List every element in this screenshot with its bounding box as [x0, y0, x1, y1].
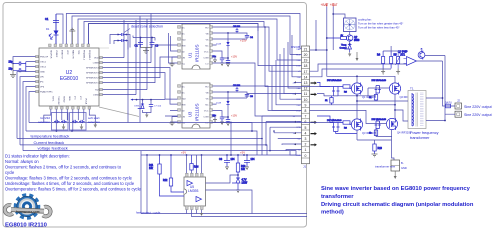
+15V branch wire	[310, 20, 327, 50]
lcd selection box	[52, 113, 69, 131]
wires U2 bottom pins to selection boxes	[44, 109, 96, 131]
svg-text:selection: selection	[38, 120, 50, 124]
ground divider 1	[381, 69, 385, 75]
wire top bus row2	[72, 16, 302, 54]
fan note text	[358, 18, 403, 30]
svg-text:NC: NC	[182, 28, 186, 30]
svg-text:NC: NC	[182, 34, 186, 36]
svg-text:DW 15V&4148: DW 15V&4148	[327, 80, 342, 82]
svg-text:temperature feedback: temperature feedback	[31, 134, 70, 139]
connector net labels	[293, 49, 302, 157]
wire transformer bottom to battery connector	[392, 140, 395, 160]
+5V labels	[181, 151, 245, 155]
svg-text:FANCTR: FANCTR	[72, 50, 75, 59]
ground near U2 pin VCC	[69, 28, 75, 44]
svg-text:LM393: LM393	[188, 189, 198, 193]
svg-text:4: 4	[305, 131, 307, 135]
connector J2 output A	[455, 99, 462, 109]
svg-text:+15V: +15V	[231, 114, 237, 118]
main title	[321, 186, 474, 216]
ground U1 bottom left	[170, 57, 178, 67]
svg-text:NC: NC	[205, 105, 209, 107]
U5 top pins	[186, 173, 204, 177]
svg-text:1: 1	[305, 148, 307, 152]
svg-text:8: 8	[305, 109, 307, 113]
ground crystal	[10, 63, 16, 78]
resistor R8 Q3 gate	[317, 116, 351, 130]
wire jumpers to pins	[110, 35, 130, 50]
svg-text:VCC: VCC	[66, 50, 68, 55]
svg-text:VCC: VCC	[204, 52, 209, 54]
ground C13	[226, 123, 230, 126]
IC U5 LM393	[184, 177, 206, 206]
capacitor C1	[45, 14, 59, 27]
diode D2 bootstrap	[216, 32, 229, 58]
lcd selection label	[38, 116, 50, 124]
svg-text:1/2W: 1/2W	[242, 182, 248, 185]
svg-text:104: 104	[231, 158, 236, 161]
svg-text:SPWMOUT4: SPWMOUT4	[86, 68, 99, 70]
wires U5 top pins	[187, 155, 202, 173]
svg-text:OSC1: OSC1	[40, 62, 47, 64]
U5 bottom pins	[186, 206, 204, 210]
wire U2 left pin1 loop	[13, 57, 36, 67]
svg-text:C1: C1	[45, 17, 49, 21]
gnd rail y131	[26, 131, 257, 155]
svg-text:RT1: RT1	[401, 54, 406, 57]
svg-text:SDN: SDN	[68, 96, 70, 101]
wire top bus row5	[89, 24, 259, 45]
ground C9	[245, 167, 249, 170]
current feedback rail	[20, 140, 267, 155]
comparator input wires	[310, 64, 407, 77]
svg-text:+BAT: +BAT	[321, 3, 329, 7]
ground C11	[226, 64, 230, 67]
wire U1 HO to Q1 gate	[213, 27, 331, 87]
MOSFET Q4	[386, 118, 397, 130]
capacitor C13	[226, 116, 230, 123]
wire D1 branch	[56, 14, 63, 44]
wire U1 LO to Q3 gate	[213, 63, 302, 116]
svg-text:R12: R12	[163, 179, 168, 182]
transformer label	[410, 131, 439, 140]
shutdown protection cluster	[130, 99, 165, 118]
svg-text:VVREF: VVREF	[55, 50, 57, 58]
svg-text:Driving circuit schematic diag: Driving circuit schematic diagram (unipo…	[321, 202, 474, 208]
svg-text:U1: U1	[188, 52, 193, 58]
resistor R6 Q1 gate	[317, 82, 351, 93]
MOSFET Q2	[389, 83, 400, 95]
svg-text:DW5.1: DW5.1	[134, 106, 141, 108]
ground caps cluster	[141, 48, 153, 54]
wire U3 LO down	[213, 123, 253, 131]
mesh verticals	[124, 14, 151, 123]
wire transformer secondary to J2	[417, 61, 456, 106]
fuse F1 body	[446, 104, 451, 108]
bridge midpoint A	[317, 94, 408, 119]
svg-text:Sine wave inverter based on EG: Sine wave inverter based on EG8010 power…	[321, 186, 471, 192]
svg-text:PQAD/TVRC: PQAD/TVRC	[40, 91, 53, 94]
svg-text:HO: HO	[205, 28, 209, 30]
wire top bus row1	[66, 14, 301, 49]
U2 pin labels right column	[86, 58, 99, 97]
svg-text:+15V: +15V	[231, 55, 237, 59]
ground soft start 1	[62, 124, 66, 130]
ground U5	[200, 211, 203, 216]
zener cluster Q4 gate	[372, 119, 387, 129]
connector J3 output B	[455, 111, 462, 117]
U3 right pins	[210, 85, 213, 124]
svg-text:GND: GND	[401, 166, 407, 170]
svg-text:cooling fan:: cooling fan:	[358, 18, 372, 22]
svg-text:Turn off the fan when less tha: Turn off the fan when less than 45°	[358, 25, 400, 29]
rail y122	[29, 119, 333, 123]
svg-text:Overvoltage: flashes 3 times,: Overvoltage: flashes 3 times, off for 2 …	[5, 175, 133, 180]
transformer T1	[408, 87, 426, 129]
resistor R12	[163, 155, 184, 192]
ground Q5	[348, 52, 351, 57]
svg-text:NC: NC	[182, 93, 186, 95]
svg-text:T1: T1	[410, 87, 414, 91]
ground divider 2	[396, 69, 400, 75]
svg-text:LOBB: LOBB	[93, 63, 99, 65]
svg-text:cycle: cycle	[5, 170, 15, 175]
transistor Q5	[347, 32, 360, 45]
U2 top pins	[49, 44, 110, 48]
resistor R4 divider	[377, 51, 385, 69]
description text block	[5, 153, 141, 191]
wire U3 VCC	[213, 111, 229, 117]
svg-text:9: 9	[305, 103, 307, 107]
connector arrows	[294, 81, 317, 146]
voltage feedback rail	[23, 146, 296, 155]
svg-text:transformer wire: transformer wire	[375, 164, 396, 168]
svg-text:B-: B-	[401, 161, 404, 165]
op-amp U4	[404, 57, 417, 66]
jumper JP1	[117, 33, 127, 36]
wire divider top	[383, 46, 398, 69]
connector row wires staircase lower	[262, 116, 302, 139]
IC U3 IR2110S	[182, 83, 210, 128]
svg-text:LIN: LIN	[182, 58, 186, 60]
ground J6	[394, 171, 397, 179]
connector row wires staircase upper	[89, 24, 302, 66]
source rail to ground	[357, 130, 392, 144]
svg-text:2: 2	[305, 143, 307, 147]
capacitor C12	[233, 85, 241, 92]
svg-text:fast protect - cycle: fast protect - cycle	[136, 211, 161, 215]
svg-text:SELFCK: SELFCK	[50, 50, 52, 59]
svg-text:+15V: +15V	[240, 39, 247, 43]
junction dots vcc node	[140, 37, 153, 39]
svg-text:voltage feedback: voltage feedback	[38, 146, 68, 151]
soft start jumpers	[72, 120, 85, 123]
U2 pin labels bottom row	[52, 96, 88, 105]
resistor R14	[190, 155, 199, 170]
svg-text:+5V: +5V	[181, 151, 186, 155]
U3 left pins	[178, 85, 181, 124]
svg-text:L/380: L/380	[93, 95, 99, 97]
bridge midpoint B	[310, 94, 409, 121]
svg-text:R10: R10	[378, 147, 383, 150]
capacitor C6 bootstrap	[245, 94, 254, 98]
wire U1 VCC	[213, 51, 229, 58]
wires U5 bottom pins	[187, 210, 308, 217]
svg-text:18: 18	[304, 64, 308, 68]
svg-text:0: 0	[305, 154, 307, 158]
svg-text:GND: GND	[40, 72, 45, 74]
svg-text:DW 15V&4148: DW 15V&4148	[372, 119, 387, 121]
capacitor C5	[212, 56, 224, 63]
MOSFET Q3	[351, 119, 362, 131]
svg-text:hunnypass.com: hunnypass.com	[16, 210, 40, 214]
svg-text:NC: NC	[182, 87, 186, 89]
svg-text:COM: COM	[203, 58, 208, 60]
svg-text:Normal: always on: Normal: always on	[5, 159, 39, 164]
soft start label	[88, 116, 100, 124]
svg-text:IR2110S: IR2110S	[195, 44, 200, 62]
wire U3 COM gnd	[213, 117, 218, 123]
U2 bottom pins	[50, 107, 91, 110]
svg-text:NC: NC	[205, 46, 209, 48]
svg-text:SPWMOUT1: SPWMOUT1	[86, 83, 99, 85]
svg-text:FRQSEL1: FRQSEL1	[83, 50, 85, 61]
svg-text:C? 104: C? 104	[233, 85, 241, 87]
svg-text:VDD: VDD	[94, 58, 99, 60]
svg-text:13: 13	[304, 81, 308, 85]
svg-text:Current feedback: Current feedback	[34, 140, 65, 145]
resistor R7 Q2 gate	[369, 93, 378, 101]
svg-text:IR2110S: IR2110S	[195, 103, 200, 121]
svg-text:+5V: +5V	[240, 151, 245, 155]
svg-text:104: 104	[251, 158, 256, 161]
svg-text:selection: selection	[88, 120, 100, 124]
capacitor C4 bootstrap	[245, 35, 254, 39]
svg-text:8050: 8050	[354, 39, 360, 42]
ground right of boxes	[94, 122, 98, 128]
svg-text:SD: SD	[182, 52, 185, 54]
svg-text:SPWMOUT3: SPWMOUT3	[86, 73, 99, 75]
svg-text:U3: U3	[188, 111, 193, 117]
svg-text:14: 14	[304, 75, 308, 79]
resistor R15 gate pulldown	[325, 96, 333, 105]
ground shunt	[372, 154, 378, 157]
transistor Q6 PNP	[398, 48, 425, 60]
shunt resistor R10	[373, 144, 383, 154]
svg-text:Sine 220V output: Sine 220V output	[464, 105, 492, 109]
resistor R5 divider	[390, 51, 398, 69]
svg-text:5: 5	[305, 126, 307, 130]
svg-text:VCC: VCC	[204, 111, 209, 113]
wire U3 HO to Q2 gate	[213, 86, 302, 110]
wire U5 right pins	[206, 175, 253, 214]
wire top bus row4	[84, 22, 264, 45]
wire U3 HIN link	[165, 99, 178, 122]
svg-text:C? 104: C? 104	[154, 106, 162, 108]
crystal X1	[9, 61, 26, 72]
+BAT label 2	[330, 3, 338, 7]
svg-text:SGND: SGND	[63, 96, 65, 103]
U2 right pins	[100, 56, 103, 95]
gray leader line	[99, 107, 139, 117]
+BAT label 1	[321, 3, 329, 7]
capacitor C2 polarized	[135, 41, 144, 48]
svg-text:OSC2: OSC2	[40, 67, 47, 69]
svg-text:D1 status indicator light desc: D1 status indicator light description:	[5, 153, 70, 158]
soft start box	[70, 113, 87, 131]
svg-text:SPWMOUT2: SPWMOUT2	[86, 78, 99, 80]
svg-text:VCCA: VCCA	[85, 98, 88, 105]
hunnypass logo	[5, 195, 51, 218]
+5V rail U5 area	[141, 123, 296, 156]
svg-text:PWCOF: PWCOF	[40, 57, 49, 59]
svg-text:D1: D1	[46, 27, 50, 31]
svg-text:LIN: LIN	[182, 117, 186, 119]
resistor R9 Q4 gate	[369, 129, 378, 137]
ground U3 bottom left	[170, 117, 178, 126]
zener D5	[232, 178, 248, 190]
fuse F1	[445, 102, 452, 105]
svg-text:Sine 220V output: Sine 220V output	[464, 113, 492, 117]
U2 left pins	[36, 55, 39, 92]
op-amp U2 EG8010	[39, 48, 99, 106]
wire U1 COM gnd	[213, 57, 218, 63]
svg-text:SD: SD	[182, 111, 185, 113]
LED D1	[46, 27, 59, 45]
svg-text:Power frequency: Power frequency	[410, 131, 439, 135]
svg-text:12: 12	[304, 87, 308, 91]
capacitor C11	[226, 57, 230, 64]
resistor R11	[149, 155, 184, 196]
svg-text:4148: 4148	[216, 44, 222, 46]
jumper JP2	[117, 39, 127, 42]
+5V rail dots	[146, 154, 248, 156]
wire transformer secondary to J3	[425, 56, 455, 121]
wire U1 VB	[213, 33, 248, 39]
temperature feedback rail	[17, 134, 262, 155]
+BAT rail to drains	[327, 7, 395, 83]
ground C7	[220, 122, 224, 125]
svg-text:R14: R14	[194, 166, 199, 169]
MOSFET Q1	[351, 83, 362, 95]
wire U1 left lower pins	[169, 33, 178, 63]
capacitor C7	[212, 115, 224, 122]
capacitor C3	[150, 41, 159, 48]
svg-text:method): method)	[321, 210, 344, 216]
svg-text:SST1: SST1	[52, 96, 54, 102]
svg-text:HIN: HIN	[182, 46, 186, 48]
ground C8	[225, 167, 229, 170]
fan box	[344, 18, 357, 32]
svg-text:Overtemperature: flashes 5 tim: Overtemperature: flashes 5 times, off fo…	[5, 186, 141, 191]
resistor R3 base	[326, 35, 347, 40]
wire left loop U5	[141, 155, 307, 214]
wire vcc caps node	[133, 36, 155, 41]
svg-text:DW 15V&4148: DW 15V&4148	[327, 120, 342, 122]
wire U3 VB	[213, 92, 248, 98]
dead zone selection label	[124, 25, 163, 33]
svg-text:LO: LO	[206, 64, 209, 66]
capacitor C8	[219, 155, 235, 167]
capacitor C10	[233, 26, 241, 33]
connector J6 transformer wire	[391, 160, 407, 171]
U1 pin labels	[182, 28, 210, 66]
svg-text:FRQSEL0: FRQSEL0	[88, 50, 90, 61]
ground soft start 2	[80, 124, 84, 130]
svg-text:TPR: TPR	[77, 50, 79, 55]
U3 pin labels	[182, 87, 210, 125]
svg-text:Overcurrent: flashes 2 times,: Overcurrent: flashes 2 times, off for 2 …	[5, 164, 122, 169]
wire Q2 gate feed	[368, 86, 389, 96]
U1 left pins	[178, 26, 181, 65]
junction rail dots	[56, 122, 232, 132]
U1 right pins	[210, 26, 213, 65]
U2 pin labels left column	[40, 57, 53, 94]
+BAT rail 2 to fan	[333, 7, 345, 51]
svg-text:+BAT: +BAT	[330, 3, 338, 7]
svg-text:transformer: transformer	[410, 136, 430, 140]
svg-text:17: 17	[304, 70, 308, 74]
ground C5	[220, 63, 224, 66]
svg-text:11: 11	[304, 92, 308, 96]
wire U3 VS	[213, 94, 302, 105]
svg-text:J2: J2	[457, 99, 460, 103]
IC U1 IR2110S	[182, 24, 210, 69]
svg-text:TXRXD2: TXRXD2	[57, 96, 59, 105]
connector J1 pin numbers	[304, 47, 308, 157]
svg-text:C9 104: C9 104	[233, 26, 241, 28]
svg-text:20: 20	[304, 53, 308, 57]
connector J1 body	[302, 46, 310, 164]
svg-text:21: 21	[304, 47, 308, 51]
wires U2 right pins mesh horizontals	[103, 45, 178, 104]
svg-text:EG8010 IR2110: EG8010 IR2110	[5, 222, 48, 228]
svg-text:HO: HO	[205, 87, 209, 89]
resistor R13 right	[236, 155, 246, 178]
svg-text:transformer: transformer	[321, 194, 354, 200]
svg-text:22p: 22p	[9, 67, 14, 70]
svg-text:MODTST: MODTST	[61, 50, 63, 60]
svg-text:Control: Control	[339, 46, 347, 49]
svg-text:LO: LO	[206, 123, 209, 125]
wire Q4 gate feed	[310, 110, 393, 136]
svg-text:DW 15V&4148: DW 15V&4148	[372, 80, 387, 82]
down arrow node	[356, 52, 359, 61]
junction dots staircase	[261, 26, 275, 151]
wire top bus row3	[78, 19, 302, 60]
zener cluster Q2 gate	[372, 80, 387, 93]
svg-text:3: 3	[305, 137, 307, 141]
svg-text:4148: 4148	[216, 103, 222, 105]
svg-text:HIN: HIN	[182, 105, 186, 107]
zener cluster Q1 gate	[324, 80, 342, 96]
thermistor RT1	[396, 51, 406, 69]
svg-text:Temp: Temp	[341, 45, 347, 47]
svg-text:7: 7	[305, 115, 307, 119]
svg-text:Turn on the fan when greater t: Turn on the fan when greater than 45°	[358, 21, 403, 25]
wire U1 VS	[213, 39, 248, 45]
zener cluster Q3 gate	[327, 120, 357, 134]
lcd selection jumpers	[54, 120, 67, 123]
svg-text:EG8010: EG8010	[60, 76, 79, 82]
zener D4 fan	[339, 43, 351, 52]
svg-text:19: 19	[304, 59, 308, 63]
diode D3 bootstrap	[216, 91, 229, 117]
svg-text:J1: J1	[303, 165, 307, 169]
svg-text:10: 10	[304, 98, 308, 102]
capacitor C9	[244, 155, 255, 167]
svg-text:COM: COM	[203, 117, 208, 119]
